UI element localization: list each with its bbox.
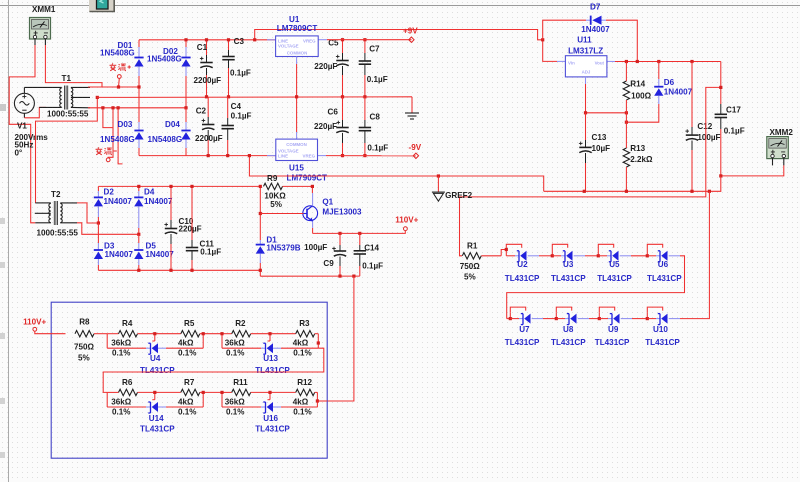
svg-text:COMMON: COMMON <box>286 142 307 147</box>
terminal 110V+ left <box>23 317 65 333</box>
capacitor C3 <box>222 37 251 98</box>
transformer T2 <box>35 190 79 237</box>
wire row2 output <box>317 400 327 402</box>
svg-text:+: + <box>22 92 27 101</box>
resistor R5 <box>155 319 222 357</box>
shunt U7 TL431CP <box>505 307 543 347</box>
svg-text:1N5408G: 1N5408G <box>147 55 182 64</box>
svg-text:U13: U13 <box>263 354 278 363</box>
svg-text:C7: C7 <box>369 45 380 54</box>
capacitor C13 <box>579 113 610 192</box>
capacitor C17 <box>715 62 745 176</box>
svg-text:XMM2: XMM2 <box>770 128 794 137</box>
shunt U3 TL431CP <box>539 244 586 282</box>
wire minus rail to gref line <box>248 154 544 191</box>
svg-text:2.2kΩ: 2.2kΩ <box>630 155 653 164</box>
svg-text:C8: C8 <box>370 113 381 122</box>
capacitor C1 <box>194 38 222 98</box>
capacitor C11 <box>186 185 221 272</box>
svg-text:R7: R7 <box>184 378 195 387</box>
wire XMM2 to output node <box>719 165 784 177</box>
svg-text:0.1µF: 0.1µF <box>724 127 745 136</box>
shunt U10 TL431CP <box>632 307 680 347</box>
svg-text:1N4007: 1N4007 <box>581 25 610 34</box>
shunt U6 TL431CP <box>631 244 682 282</box>
resistor R11 <box>222 378 270 416</box>
svg-text:0.1%: 0.1% <box>178 348 196 357</box>
svg-text:10µF: 10µF <box>592 144 611 153</box>
svg-text:TL431CP: TL431CP <box>140 366 175 375</box>
resistor R4 <box>107 319 155 357</box>
wire U11 ADJ down <box>584 77 628 114</box>
ground mid rail <box>405 97 419 119</box>
svg-text:C6: C6 <box>328 108 339 117</box>
svg-text:220µF: 220µF <box>314 62 337 71</box>
capacitor C8 <box>359 97 389 157</box>
svg-text:LINE: LINE <box>278 154 288 159</box>
svg-text:C1: C1 <box>197 43 208 52</box>
svg-text:220µF: 220µF <box>314 122 337 131</box>
svg-text:U4: U4 <box>150 354 161 363</box>
svg-text:U5: U5 <box>609 260 620 269</box>
wire D1 node vertical <box>259 185 262 240</box>
svg-text:LM7909CT: LM7909CT <box>287 174 328 183</box>
terminal 交流+ <box>110 63 131 88</box>
svg-text:ADJ: ADJ <box>582 70 591 75</box>
svg-text:1N5408G: 1N5408G <box>100 135 135 144</box>
svg-text:U2: U2 <box>517 260 528 269</box>
svg-text:GREF2: GREF2 <box>445 191 472 200</box>
wire XMM1 plus left loop to T2 primary bottom <box>9 45 35 223</box>
svg-text:2200µF: 2200µF <box>195 134 223 143</box>
svg-text:0.1µF: 0.1µF <box>362 262 383 271</box>
capacitor C10 <box>164 185 201 272</box>
wire T1 secondary top to bridge <box>88 86 139 88</box>
svg-text:1N5408G: 1N5408G <box>100 48 135 57</box>
svg-text:1N5408G: 1N5408G <box>148 135 183 144</box>
resistor R6 <box>107 378 155 416</box>
resistor R7 <box>155 378 222 416</box>
svg-text:U1: U1 <box>289 15 300 24</box>
wire XMM1 minus over T1 to secondary top <box>45 45 139 87</box>
svg-text:R9: R9 <box>267 174 278 183</box>
svg-text:D2: D2 <box>104 187 115 196</box>
svg-text:0°: 0° <box>15 149 23 158</box>
diode D2 <box>94 186 133 224</box>
wire stub acjog1 <box>101 106 114 127</box>
svg-text:4kΩ: 4kΩ <box>178 397 194 406</box>
svg-text:100µF: 100µF <box>697 133 720 142</box>
source V1 <box>14 87 34 117</box>
resistor R12 <box>270 378 317 416</box>
svg-text:1N5379B: 1N5379B <box>266 243 300 252</box>
label V1 <box>15 122 49 158</box>
resistor R14 <box>623 62 651 113</box>
svg-text:VREG: VREG <box>303 154 316 159</box>
svg-text:0.1µF: 0.1µF <box>367 144 388 153</box>
svg-text:+9V: +9V <box>403 27 418 36</box>
svg-text:36kΩ: 36kΩ <box>111 339 132 348</box>
svg-text:0.1µF: 0.1µF <box>200 248 221 257</box>
wire line A ground return <box>544 176 721 193</box>
svg-text:Vin: Vin <box>568 60 575 65</box>
svg-text:D03: D03 <box>118 120 133 129</box>
node box outline <box>51 302 327 458</box>
svg-text:1N4007: 1N4007 <box>144 197 173 206</box>
diode D03 <box>100 85 144 155</box>
terminal 交流- <box>96 108 117 162</box>
resistor R8 <box>74 317 107 362</box>
resistor R9 <box>264 174 313 209</box>
wire Vout rail <box>615 60 721 63</box>
svg-text:U15: U15 <box>289 163 304 172</box>
svg-text:D4: D4 <box>144 187 155 196</box>
svg-text:R11: R11 <box>233 378 248 387</box>
svg-text:C12: C12 <box>697 122 712 131</box>
diode D5 <box>134 234 174 272</box>
svg-text:TL431CP: TL431CP <box>140 425 175 434</box>
svg-text:C4: C4 <box>231 102 242 111</box>
terminal +9V <box>403 27 418 43</box>
wire T1 secondary bottom rail <box>88 107 186 109</box>
wire emitter line to 110V+ <box>313 231 406 236</box>
shunt U13 TL431CP <box>220 332 320 375</box>
svg-text:2200µF: 2200µF <box>194 76 222 85</box>
diode D4 <box>134 185 173 236</box>
svg-text:TL431CP: TL431CP <box>505 274 540 283</box>
svg-text:5%: 5% <box>78 353 90 362</box>
svg-text:0.1µF: 0.1µF <box>231 112 252 121</box>
wire bridge1 top rail <box>139 39 276 41</box>
svg-text:0.1%: 0.1% <box>178 407 196 416</box>
wire stub acjog2 <box>117 106 123 164</box>
svg-text:U10: U10 <box>653 325 668 334</box>
svg-text:MJE13003: MJE13003 <box>322 208 362 217</box>
svg-text:1N4007: 1N4007 <box>105 250 134 259</box>
svg-text:V1: V1 <box>17 122 27 131</box>
svg-text:TL431CP: TL431CP <box>551 338 586 347</box>
wire bridge2 bottom rail <box>98 269 260 271</box>
svg-text:U7: U7 <box>519 325 530 334</box>
svg-text:T2: T2 <box>51 190 61 199</box>
resistor R13 <box>623 113 653 192</box>
svg-text:COMMON: COMMON <box>287 51 308 56</box>
svg-text:U3: U3 <box>563 260 574 269</box>
resistor R2 <box>222 319 270 357</box>
svg-text:4kΩ: 4kΩ <box>293 397 309 406</box>
svg-text:1N4007: 1N4007 <box>104 197 133 206</box>
diode D7 <box>543 3 638 62</box>
svg-text:U9: U9 <box>608 325 619 334</box>
wire T2 secondary bottom to D4 node <box>77 223 139 235</box>
svg-text:100µF: 100µF <box>304 243 327 252</box>
svg-text:C14: C14 <box>364 244 379 253</box>
capacitor C5 <box>314 38 349 98</box>
diode D01 <box>100 40 144 87</box>
transformer T1 <box>24 74 90 119</box>
svg-text:750Ω: 750Ω <box>74 342 95 351</box>
svg-text:TL431CP: TL431CP <box>255 425 290 434</box>
svg-text:TL431CP: TL431CP <box>255 366 290 375</box>
terminal 110V+ right <box>395 216 418 231</box>
svg-text:0.1%: 0.1% <box>226 407 244 416</box>
shunt U14 TL431CP <box>107 391 205 434</box>
svg-text:TL431CP: TL431CP <box>597 274 632 283</box>
toolbar icon <box>89 0 115 12</box>
svg-text:R6: R6 <box>122 378 133 387</box>
multimeter XMM2 <box>767 128 794 165</box>
wire Vout jog to line B <box>460 86 723 256</box>
capacitor C14 <box>354 233 384 276</box>
svg-text:U16: U16 <box>263 414 278 423</box>
svg-text:0.1%: 0.1% <box>293 407 311 416</box>
shunt U4 TL431CP <box>107 332 205 375</box>
op-amp U15 LM7909CT <box>267 139 327 182</box>
svg-text:U8: U8 <box>563 325 574 334</box>
wire bottom line under caps <box>260 275 360 278</box>
svg-text:100Ω: 100Ω <box>631 91 652 100</box>
wire U15 output to -9V terminal <box>326 155 416 157</box>
svg-text:36kΩ: 36kΩ <box>111 397 132 406</box>
svg-text:TL431CP: TL431CP <box>595 338 630 347</box>
svg-text:D7: D7 <box>590 3 601 12</box>
capacitor C12 <box>685 62 720 192</box>
svg-text:750Ω: 750Ω <box>460 262 481 271</box>
wire minus rail <box>139 155 276 157</box>
svg-text:36kΩ: 36kΩ <box>225 397 246 406</box>
svg-text:1N4007: 1N4007 <box>145 250 174 259</box>
svg-text:Vout: Vout <box>595 60 605 65</box>
svg-text:T1: T1 <box>62 74 72 83</box>
svg-text:R12: R12 <box>297 378 312 387</box>
svg-text:0.1%: 0.1% <box>226 348 244 357</box>
svg-text:R8: R8 <box>79 317 90 326</box>
svg-text:220µF: 220µF <box>179 225 202 234</box>
capacitor C2 <box>195 97 223 157</box>
svg-text:36kΩ: 36kΩ <box>225 339 246 348</box>
svg-text:R1: R1 <box>467 241 478 250</box>
svg-text:U14: U14 <box>149 414 164 423</box>
diode D1 1N5379B <box>256 236 301 277</box>
resistor R1 <box>460 241 501 281</box>
svg-text:C17: C17 <box>726 105 741 114</box>
terminal -9V <box>409 143 422 159</box>
svg-text:0.1%: 0.1% <box>293 348 311 357</box>
shunt U9 TL431CP <box>589 307 632 347</box>
resistor R3 <box>270 319 318 357</box>
wire over U1 to +9V feed <box>253 30 557 62</box>
svg-text:TL431CP: TL431CP <box>647 274 682 283</box>
svg-text:TL431CP: TL431CP <box>551 274 586 283</box>
svg-text:R2: R2 <box>235 319 246 328</box>
svg-text:Q1: Q1 <box>322 197 333 206</box>
svg-text:110V+: 110V+ <box>23 317 46 326</box>
svg-text:C2: C2 <box>196 107 207 116</box>
wire mid rail 0V <box>97 96 412 99</box>
svg-text:C9: C9 <box>323 259 334 268</box>
diode D3 <box>94 223 134 270</box>
svg-text:1000:55:55: 1000:55:55 <box>47 109 89 118</box>
svg-text:XMM1: XMM1 <box>32 5 56 14</box>
shunt U16 TL431CP <box>220 391 319 434</box>
svg-text:C3: C3 <box>234 37 245 46</box>
svg-text:-9V: -9V <box>409 143 422 152</box>
wire T2 secondary top to D2 node <box>77 203 98 223</box>
svg-text:VREG: VREG <box>303 39 316 44</box>
svg-text:5%: 5% <box>464 273 476 282</box>
svg-text:4kΩ: 4kΩ <box>178 339 194 348</box>
svg-text:110V+: 110V+ <box>395 216 418 225</box>
wire V1 minus to T1 primary bottom <box>24 107 46 117</box>
svg-text:R13: R13 <box>630 144 645 153</box>
svg-text:R3: R3 <box>299 319 310 328</box>
svg-text:0.1µF: 0.1µF <box>367 75 388 84</box>
svg-text:R4: R4 <box>122 319 133 328</box>
svg-text:D04: D04 <box>165 120 180 129</box>
svg-text:R5: R5 <box>184 319 195 328</box>
svg-text:C13: C13 <box>592 133 607 142</box>
svg-text:5%: 5% <box>270 200 282 209</box>
op-amp U1 LM7809CT <box>267 15 327 57</box>
svg-text:LM7809CT: LM7809CT <box>277 24 318 33</box>
transistor Q1 MJE13003 <box>260 185 362 234</box>
multimeter XMM1 <box>30 5 56 45</box>
svg-text:0.1µF: 0.1µF <box>230 69 251 78</box>
svg-text:R14: R14 <box>630 80 645 89</box>
svg-text:VOLTAGE: VOLTAGE <box>278 44 299 49</box>
wire U1 output to +9V terminal <box>327 39 412 41</box>
wire box output riser <box>327 276 354 401</box>
wire row1 chain to row2 chain <box>507 256 685 319</box>
op-amp U11 LM317LZ <box>557 35 615 77</box>
diode D6 <box>625 62 693 124</box>
svg-text:D6: D6 <box>664 78 675 87</box>
wire row2 chain return to line A <box>680 191 709 318</box>
svg-text:0.1%: 0.1% <box>112 407 130 416</box>
svg-text:0.1%: 0.1% <box>112 348 130 357</box>
svg-text:1000:55:55: 1000:55:55 <box>37 228 79 237</box>
wire T1 center tap to T2 primary top <box>36 96 99 203</box>
shunt U2 TL431CP <box>501 244 540 282</box>
svg-text:U6: U6 <box>658 260 669 269</box>
svg-text:LM317LZ: LM317LZ <box>568 47 603 56</box>
capacitor C9 <box>304 233 346 276</box>
svg-text:4kΩ: 4kΩ <box>293 339 309 348</box>
svg-text:TL431CP: TL431CP <box>645 338 680 347</box>
diode D02 <box>147 38 191 109</box>
wire row1 to row2 connector <box>103 348 324 392</box>
diode D04 <box>148 108 191 156</box>
svg-text:1N4007: 1N4007 <box>664 88 693 97</box>
wire U1 common down through mid rail to U15 <box>295 57 298 140</box>
shunt U8 TL431CP <box>543 307 589 347</box>
wire bridge2 top rail <box>98 185 261 187</box>
capacitor C4 <box>222 97 252 157</box>
capacitor C7 <box>359 38 388 98</box>
shunt U5 TL431CP <box>585 244 632 282</box>
capacitor C6 <box>314 97 349 157</box>
svg-text:TL431CP: TL431CP <box>505 338 540 347</box>
ground GREF2 <box>432 176 473 201</box>
svg-text:U11: U11 <box>577 35 592 44</box>
